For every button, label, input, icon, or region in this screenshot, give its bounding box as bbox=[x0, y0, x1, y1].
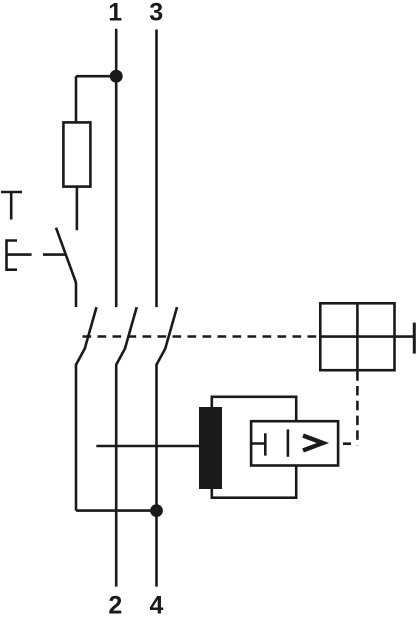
main conductor through CT bbox=[96, 445, 199, 448]
push-button actuator E bbox=[7, 241, 32, 270]
main contact blade pole 1 bbox=[116, 307, 137, 365]
main contact blade pole 3 bbox=[157, 307, 178, 365]
sensor greater-than symbol bbox=[303, 436, 323, 451]
wire line 1 upper bbox=[115, 29, 118, 307]
T symbol test button bbox=[1, 192, 22, 220]
handle bar bbox=[413, 323, 416, 354]
wire line 4 bbox=[155, 364, 158, 587]
svg-text:4: 4 bbox=[150, 592, 164, 617]
trip linkage dash horizontal bbox=[343, 442, 351, 445]
sensor contact symbol bbox=[251, 433, 265, 455]
wire lower horizontal test return bbox=[76, 509, 157, 512]
svg-text:2: 2 bbox=[108, 592, 122, 617]
latch box vertical divider bbox=[356, 303, 359, 376]
wire line 2 bbox=[115, 364, 118, 587]
latch box bbox=[320, 303, 394, 370]
sensor bar bbox=[287, 429, 290, 456]
trip linkage dashed vertical bbox=[356, 377, 359, 446]
wire resistor to test contact bbox=[76, 187, 79, 231]
CT secondary loop bbox=[212, 397, 296, 498]
svg-text:1: 1 bbox=[108, 0, 122, 27]
resistor R test bbox=[63, 122, 90, 186]
svg-text:3: 3 bbox=[149, 0, 163, 27]
wire test branch down to resistor bbox=[75, 76, 78, 122]
mechanical link dashed line bbox=[83, 335, 321, 338]
main contact blade test pole bbox=[76, 307, 97, 365]
CT core bbox=[199, 407, 222, 489]
wire test pole lower bbox=[75, 364, 78, 511]
wire test contact to main contact bbox=[75, 283, 78, 307]
latch box horizontal divider and handle link bbox=[320, 335, 414, 338]
wire line 3 upper bbox=[155, 30, 158, 308]
test button contact blade bbox=[56, 228, 76, 284]
wire test branch horizontal bbox=[76, 75, 116, 78]
node junction on line 1 bbox=[110, 70, 123, 83]
sensor box bbox=[251, 421, 338, 465]
actuator link bbox=[43, 253, 65, 256]
node junction on line 4 bbox=[150, 504, 163, 517]
